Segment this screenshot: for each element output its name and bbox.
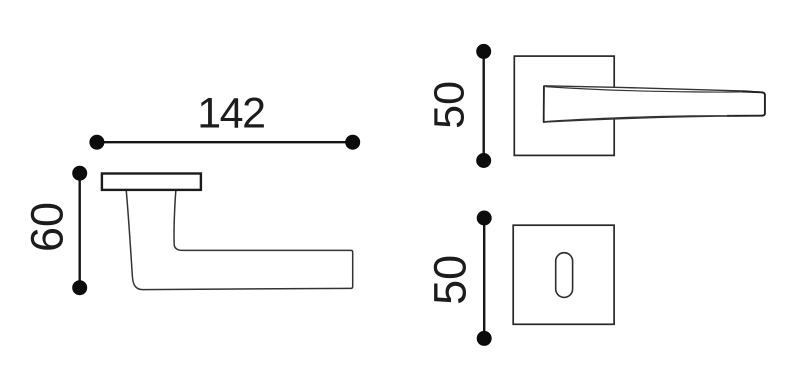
top view: blade right cap emphasis xyxy=(727,92,765,116)
handle side view: lever outline xyxy=(126,190,353,290)
top view: handle blade outline xyxy=(544,86,765,123)
dim 142 right dot xyxy=(345,135,360,150)
top view: blade inner bottom edge line xyxy=(545,116,735,122)
dim 60 top dot xyxy=(72,166,87,181)
dimension line 60 xyxy=(78,173,80,288)
dim 50 bottom lower dot xyxy=(477,331,492,346)
top view: square rosette xyxy=(514,56,614,155)
dim 50 top lower dot xyxy=(476,153,491,168)
dimension line 142 xyxy=(97,141,353,143)
dimension line 50 bottom xyxy=(483,218,485,338)
dim 50 bottom upper dot xyxy=(477,211,492,226)
top view: blade inner top edge line xyxy=(546,87,750,92)
svg-text:60: 60 xyxy=(22,202,73,252)
svg-text:50: 50 xyxy=(426,81,474,129)
bottom view: square escutcheon xyxy=(513,225,614,324)
dim 60 bottom dot xyxy=(72,280,87,295)
dim 142 left dot xyxy=(89,135,104,150)
bottom view: keyhole slot xyxy=(556,253,573,298)
dim 50 top upper dot xyxy=(476,44,491,59)
svg-text:50: 50 xyxy=(424,255,475,305)
svg-text:142: 142 xyxy=(197,89,264,137)
top view: blade left base edge emphasis xyxy=(543,86,545,122)
dimension line 50 top xyxy=(483,51,485,160)
handle side view: rosette plate (side) xyxy=(102,174,201,190)
